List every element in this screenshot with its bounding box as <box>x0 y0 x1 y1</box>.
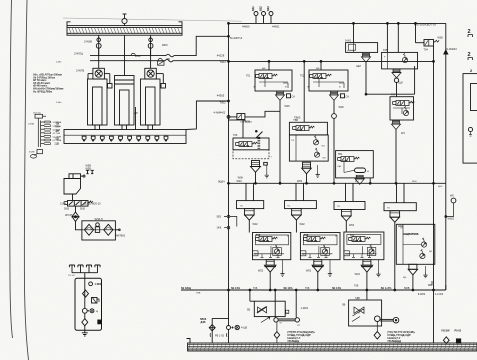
drain below box <box>82 313 88 336</box>
svg-text:TKD-2KDKBDT-03: TKD-2KDKBDT-03 <box>414 22 437 26</box>
svg-text:Д4Б: Д4Б <box>201 321 206 324</box>
right vertical pair <box>434 23 448 343</box>
svg-text:CZ5В,5Щ: CZ5В,5Щ <box>308 240 319 242</box>
svg-text:А 2-W3: А 2-W3 <box>435 293 444 296</box>
svg-text:T002: T002 <box>220 101 227 105</box>
svg-text:ТДВ: ТДВ <box>55 138 60 141</box>
svg-text:щ: щ <box>96 310 98 313</box>
filter unit box SZW-N <box>82 221 120 240</box>
svg-text:T05: T05 <box>383 49 388 52</box>
cylinder left <box>88 79 108 130</box>
middle dark text block <box>287 330 315 343</box>
svg-text:T01: T01 <box>246 75 251 78</box>
svg-text:Т08: Т08 <box>253 287 258 290</box>
svg-text:4РС05: 4РС05 <box>65 214 73 217</box>
svg-text:5UВ: 5UВ <box>80 208 85 211</box>
svg-text:W04: W04 <box>237 180 243 183</box>
svg-text:T06: T06 <box>233 134 238 137</box>
svg-text:1-Иm: 1-Иm <box>56 102 62 104</box>
svg-text:SБ: SБ <box>247 309 251 312</box>
pump unit box <box>75 278 102 330</box>
svg-text:ЩМ: ЩМ <box>356 65 360 68</box>
small pilot items near left prefill <box>104 74 112 88</box>
svg-text:ТФ: ТФ <box>291 139 294 142</box>
hose line lower <box>90 59 229 62</box>
branch to W2B valve <box>230 116 237 118</box>
small pilot valve left of left-cylinder <box>88 74 93 79</box>
svg-text:1-W08: 1-W08 <box>95 283 103 286</box>
drop triangle marker <box>444 50 448 54</box>
svg-text:CZ9A,9Щ: CZ9A,9Щ <box>314 76 325 79</box>
svg-text:44228: 44228 <box>217 53 225 57</box>
manifold box under cylinders <box>64 130 186 144</box>
page curl line left <box>10 0 13 338</box>
small open junctions on bus <box>224 215 237 229</box>
four nozzle forks <box>69 265 100 279</box>
svg-text:CU%: CU% <box>60 203 67 206</box>
svg-text:9-W04 W04: 9-W04 W04 <box>240 121 252 123</box>
svg-text:CZ9A,9Щ: CZ9A,9Щ <box>260 76 271 79</box>
svg-text:44505: 44505 <box>217 94 225 98</box>
svg-text:T03: T03 <box>350 235 355 238</box>
svg-text:1-W3A: 1-W3A <box>28 122 35 125</box>
svg-text:T08: T08 <box>304 234 309 237</box>
svg-text:ТИВ: ТИВ <box>196 292 201 294</box>
svg-text:5UВ: 5UВ <box>64 208 69 211</box>
svg-text:W4: W4 <box>401 132 405 135</box>
svg-text:W08: W08 <box>238 177 244 180</box>
hat H1 <box>237 183 264 232</box>
svg-text:ЩВ: ЩВ <box>338 166 342 168</box>
svg-text:Щ02: Щ02 <box>438 186 443 188</box>
gauge near right verticals <box>445 183 456 290</box>
svg-text:W02: W02 <box>349 224 355 227</box>
bus lower to pump <box>228 290 230 326</box>
svg-text:TВ1: TВ1 <box>338 153 343 156</box>
svg-text:ДА: ДА <box>56 130 60 133</box>
svg-text:Нь Ф70Щ-Л50м: Нь Ф70Щ-Л50м <box>33 89 52 93</box>
svg-text:1-W20-10: 1-W20-10 <box>90 203 102 206</box>
svg-text:ВД2: ВД2 <box>260 6 263 11</box>
svg-text:ВД1: ВД1 <box>252 6 255 11</box>
svg-text:SL/HDTv2: SL/HDTv2 <box>230 36 243 40</box>
svg-text:T08: T08 <box>256 234 261 237</box>
svg-text:W03: W03 <box>355 273 361 276</box>
svg-text:W0: W0 <box>166 57 171 61</box>
svg-text:W02: W02 <box>258 270 264 273</box>
svg-text:W0: W0 <box>450 195 454 198</box>
svg-text:CZ2А: CZ2А <box>297 128 303 131</box>
svg-text:CZ1А,1Щ: CZ1А,1Щ <box>240 144 251 147</box>
svg-text:SВ: SВ <box>342 304 346 307</box>
manifold feed from right <box>186 101 229 130</box>
svg-text:9-W1: 9-W1 <box>345 40 352 43</box>
svg-text:TВ8: TВ8 <box>293 119 298 122</box>
svg-text:W002: W002 <box>448 218 455 221</box>
svg-text:Y01SW: Y01SW <box>441 330 450 333</box>
check valve W03 on line <box>158 61 165 65</box>
spec text block <box>33 73 63 94</box>
svg-text:1-W02: 1-W02 <box>301 307 309 310</box>
labels layer 1 <box>56 6 436 120</box>
svg-text:W03: W03 <box>162 43 168 47</box>
svg-text:W5В: W5В <box>86 167 92 170</box>
pump-motor pair <box>82 308 94 313</box>
svg-text:ТДВ: ТДВ <box>355 297 360 300</box>
left legend ladder <box>31 114 51 158</box>
svg-text:44600: 44600 <box>242 24 250 28</box>
svg-text:T07: T07 <box>391 94 396 97</box>
svg-text:NА: NА <box>56 122 60 125</box>
small pilot items near right prefill <box>156 74 165 88</box>
svg-text:4W7В00: 4W7В00 <box>116 234 126 237</box>
cylinder middle <box>115 76 135 131</box>
svg-text:SЕ0: SЕ0 <box>217 216 222 219</box>
pilot directional valve 1-W20-10 <box>64 201 93 207</box>
svg-text:РБ 1-92: РБ 1-92 <box>215 334 225 337</box>
hat H2 <box>285 183 317 232</box>
svg-text:ВД3: ВД3 <box>267 6 270 11</box>
svg-text:Р0-02: Р0-02 <box>455 330 462 333</box>
svg-text:2-W7B: 2-W7B <box>76 69 84 73</box>
prefill valve left cylinder <box>93 48 105 79</box>
svg-text:W04: W04 <box>297 180 303 183</box>
svg-text:CА: CА <box>292 96 296 99</box>
svg-text:2ДВ: 2ДВ <box>55 143 60 146</box>
gauge in box <box>89 282 93 286</box>
svg-text:CZ5В,5Щ: CZ5В,5Щ <box>353 240 364 242</box>
crease line faint <box>63 18 242 21</box>
right dark text block <box>387 330 415 343</box>
svg-text:44601: 44601 <box>272 24 280 28</box>
mid-left labels <box>60 165 126 238</box>
prefill valve right cylinder <box>145 48 157 79</box>
svg-text:SZW-N: SZW-N <box>95 218 103 221</box>
svg-text:W06: W06 <box>339 106 345 109</box>
svg-text:W02: W02 <box>306 270 312 273</box>
svg-text:6WВ: 6WВ <box>404 287 410 290</box>
drop line left with check valves <box>96 35 101 55</box>
svg-text:4-Щ9: 4-Щ9 <box>241 327 248 330</box>
svg-text:ЩФ: ЩФ <box>316 67 320 70</box>
horizontal pilot cylinder <box>69 174 85 179</box>
svg-text:T04: T04 <box>424 49 429 52</box>
legend labels <box>28 113 62 154</box>
svg-text:CZ3W: CZ3W <box>342 160 349 162</box>
gauge above beam <box>122 14 127 26</box>
drop line right with check valves <box>148 35 153 55</box>
svg-text:SЕ 1+5%: SЕ 1+5% <box>381 287 392 290</box>
svg-text:W04: W04 <box>412 181 417 183</box>
lever and dense column <box>256 130 263 138</box>
accumulator body <box>64 179 81 195</box>
svg-text:CZ5В,5Щ: CZ5В,5Щ <box>260 240 271 242</box>
svg-text:УВ-ВЦЦЦ: УВ-ВЦЦЦ <box>287 339 299 343</box>
svg-text:ЩФ: ЩФ <box>262 67 266 70</box>
page curl line right <box>24 0 28 360</box>
hat H3 <box>334 183 365 232</box>
hat H4 <box>384 183 416 291</box>
svg-text:П 1-40: П 1-40 <box>68 275 75 277</box>
svg-text:2-W08: 2-W08 <box>84 40 92 44</box>
svg-text:T003: T003 <box>220 60 227 64</box>
pump unit labels <box>68 275 102 313</box>
svg-text:2-Иm: 2-Иm <box>56 62 62 64</box>
beam (press crossbar, hatched) <box>67 22 182 35</box>
svg-text:4-AM44/2: 4-AM44/2 <box>214 111 226 115</box>
svg-text:14/8: 14/8 <box>217 227 222 230</box>
svg-text:SЕ 14%: SЕ 14% <box>284 287 294 290</box>
svg-text:КСИМ: КСИМ <box>29 152 35 154</box>
svg-text:CА: CА <box>346 96 350 99</box>
manifold couplings row <box>82 136 168 141</box>
open junction 4-AM44 on bus <box>227 116 230 119</box>
relief valve cluster <box>92 297 100 303</box>
filter diamond lower <box>82 319 88 326</box>
W8 line between cylinders <box>135 107 137 130</box>
hose line upper <box>90 36 229 57</box>
svg-text:АЩВ3ТК06: АЩВ3ТК06 <box>403 232 419 236</box>
svg-text:Т08: Т08 <box>354 285 359 288</box>
supply bus y61 <box>229 60 434 62</box>
manifold side labels <box>55 112 139 146</box>
cylinder right <box>141 79 161 130</box>
svg-text:SЕ 14%: SЕ 14% <box>231 287 241 290</box>
twin drain marks <box>86 170 94 173</box>
svg-text:М: М <box>358 313 360 315</box>
svg-text:ТМА: ТМА <box>55 126 60 129</box>
top pressure gauges group <box>229 12 446 24</box>
filter diamond upper <box>83 290 89 297</box>
svg-text:ЩИ: ЩИ <box>399 82 403 85</box>
svg-text:W02: W02 <box>300 223 306 226</box>
svg-text:1220.5Щ: 1220.5Щ <box>33 113 41 115</box>
svg-text:W02: W02 <box>135 54 141 58</box>
scattered small labels <box>233 51 443 280</box>
drop line center (to middle cylinder) <box>124 35 126 75</box>
clamp symbols right edge <box>468 29 474 73</box>
vertical bus main <box>228 23 230 290</box>
svg-text:W08: W08 <box>438 37 444 40</box>
svg-text:W26: W26 <box>285 105 291 108</box>
hose line bump <box>131 53 135 55</box>
svg-text:УВ-ВЦЦЦД: УВ-ВЦЦЦД <box>387 339 401 343</box>
svg-text:2-W7Щ: 2-W7Щ <box>74 52 83 56</box>
svg-text:Т08: Т08 <box>305 287 310 290</box>
svg-text:9-W02: 9-W02 <box>418 293 426 296</box>
svg-text:W02: W02 <box>253 223 259 226</box>
svg-text:SЕ 14%: SЕ 14% <box>332 287 342 290</box>
svg-text:9Щ04: 9Щ04 <box>218 181 225 184</box>
small square in box <box>98 320 101 324</box>
flow control bowtie <box>72 212 79 222</box>
svg-text:9-АМ043: 9-АМ043 <box>447 48 458 51</box>
svg-text:SЕ 1ИЩ: SЕ 1ИЩ <box>181 287 191 290</box>
